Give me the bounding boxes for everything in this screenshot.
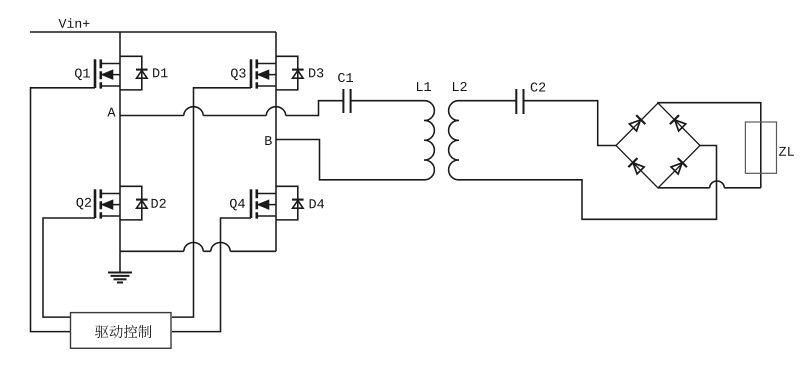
body diode D4 [276,186,304,220]
diode bridge diamond [616,103,700,188]
label Vin+ [59,18,90,28]
wire L2 top to C2 [459,100,516,102]
wire Q1 gate to drive box [31,88,96,332]
transistor Q4 [251,189,276,218]
wire Vin+ top rail [30,31,276,33]
transistor Q2 [95,189,120,218]
ground symbol [108,251,132,282]
ground bus wire with hops at x=193.5 and x=220.5 [120,243,276,252]
wire Q2 gate to drive box [43,218,95,317]
body diode D3 [276,56,304,90]
label D1 [153,68,168,77]
node A wire with hops at x=193.5 and x=276 [120,101,343,116]
capacitor C2 [516,89,523,114]
capacitor C1 [343,89,350,113]
transistor Q1 [95,59,120,88]
wire Q3 gate to drive box (vertical x=193.5) [172,88,251,317]
bridge diode top-left [628,115,645,132]
label C1 [338,73,353,82]
label D3 [309,68,323,77]
label L2 [453,82,467,91]
bridge diode bottom-left [628,158,645,175]
drive control box 驱动控制 [71,313,172,349]
label L1 [417,82,431,91]
wire left leg rail x=120 [119,32,121,251]
label Q4 [230,199,245,211]
wire right leg rail x=276 [275,32,277,251]
inductor L2 [449,101,459,180]
wire C1 to L1 [351,100,424,102]
label Q1 [75,69,90,81]
wire bridge top vertex to ZL [658,103,761,188]
inductor L1 [424,101,434,180]
wire L1 bottom / L2 bottom [459,146,717,220]
body diode D2 [120,186,148,220]
label A [107,108,115,117]
load ZL rectangle [745,122,776,173]
bridge diode top-right [670,115,687,132]
label D4 [310,199,324,208]
label ZL [779,147,794,156]
bridge diode bottom-right [670,158,687,175]
label B [265,136,272,145]
body diode D1 [120,56,148,90]
label D2 [152,199,166,208]
wire Q4 gate to drive box (vertical x=220.5) [172,218,251,332]
label C2 [531,83,546,92]
wire C2 to bridge left vertex [524,101,617,146]
node B wire [276,140,424,180]
label Q2 [77,198,92,210]
wire bridge bottom vertex to ZL bottom with hop over x=714 [658,181,761,188]
transistor Q3 [251,59,276,88]
label Q3 [231,69,246,81]
